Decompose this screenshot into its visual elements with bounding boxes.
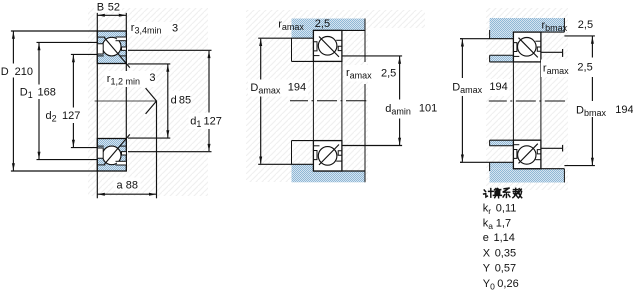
right face line <box>125 13 127 171</box>
svg-text:194: 194 <box>489 81 507 93</box>
inner ring shoulder line <box>98 55 104 57</box>
ball top <box>102 37 121 56</box>
label ramax right mid <box>344 65 398 82</box>
housing shoulder face bottom <box>258 163 313 165</box>
svg-text:52: 52 <box>108 2 120 14</box>
label d 85 <box>170 91 191 106</box>
housing band bottom right <box>490 169 565 183</box>
svg-text:B: B <box>97 2 104 14</box>
label Dbmax 194 right <box>573 102 633 118</box>
dimension Damax mid <box>259 39 262 164</box>
label ramax 2,5 right <box>541 60 594 78</box>
ball right top <box>518 38 537 57</box>
svg-text:85: 85 <box>179 95 191 107</box>
svg-text:2,5: 2,5 <box>315 18 330 30</box>
bearing box bottom right <box>513 140 541 169</box>
svg-text:D: D <box>1 66 9 78</box>
ramax leader bottom right <box>541 145 563 152</box>
bearing box top right <box>513 32 541 62</box>
contact line apex segment bottom <box>146 101 157 114</box>
dimension B <box>97 14 126 17</box>
svg-text:2,5: 2,5 <box>577 61 592 73</box>
label r34min 3 <box>129 22 180 36</box>
housing bore line bottom right <box>513 168 564 170</box>
housing outer edge bottom <box>364 171 366 182</box>
svg-text:101: 101 <box>419 103 437 115</box>
svg-text:194: 194 <box>615 104 633 116</box>
shaft line bottom right <box>490 139 541 141</box>
bearing face lines mid <box>312 61 314 140</box>
dimension damin <box>342 56 402 146</box>
outer ring shoulder line bottom <box>98 164 106 166</box>
dimension d <box>128 64 170 138</box>
label d1 127 <box>189 113 223 129</box>
svg-text:0,26: 0,26 <box>497 278 518 290</box>
svg-text:3: 3 <box>172 23 178 35</box>
housing step top right <box>490 32 514 39</box>
svg-text:d: d <box>171 95 177 107</box>
svg-text:168: 168 <box>38 87 56 99</box>
left edges bottom right <box>489 162 491 171</box>
dimension Damax right <box>460 39 464 163</box>
contact line apex segment top <box>146 88 157 101</box>
housing shoulder face top <box>258 37 313 39</box>
svg-text:2,5: 2,5 <box>381 68 396 80</box>
centerline mid <box>290 100 366 102</box>
svg-text:a: a <box>117 180 124 192</box>
svg-text:e: e <box>483 232 489 244</box>
housing shoulder face top right <box>460 38 513 40</box>
right middle notch bottom <box>122 152 126 155</box>
label B 52 <box>94 0 122 12</box>
centerline axis <box>95 100 157 102</box>
label Damax 194 <box>248 80 308 97</box>
dimension D <box>11 31 97 171</box>
ring marks right bottom <box>513 150 517 159</box>
bearing box top <box>313 30 342 61</box>
svg-text:1,7: 1,7 <box>496 218 511 230</box>
table heading 计算系数 (drawn glyphs) <box>484 188 522 198</box>
housing bore line top <box>313 29 365 31</box>
dimension Dbmax right <box>564 36 595 166</box>
outer ring gap notch bottom-right <box>117 162 126 165</box>
svg-text:88: 88 <box>126 180 138 192</box>
ring marks mid bottom <box>313 151 317 160</box>
svg-text:127: 127 <box>204 116 222 128</box>
housing band right edges <box>563 18 565 32</box>
shaft line top right <box>490 61 541 63</box>
contact angle line bottom <box>104 134 130 164</box>
shaft spacer top right <box>490 55 514 62</box>
label Damax 194 right <box>450 79 510 96</box>
housing pocket edge bottom <box>291 141 293 165</box>
left ring notch <box>98 44 103 54</box>
left edges top right <box>489 30 491 39</box>
housing band bottom <box>292 171 366 182</box>
contact line right bottom <box>519 144 538 164</box>
ball mid bottom <box>318 147 337 166</box>
svg-text:Y: Y <box>483 262 491 274</box>
centerline right <box>489 100 565 102</box>
svg-text:1,14: 1,14 <box>494 232 515 244</box>
contact line mid bottom <box>319 145 339 165</box>
svg-text:3: 3 <box>149 72 155 84</box>
inner ring shoulder line bottom <box>98 145 104 147</box>
spacer bottom line right <box>490 145 514 147</box>
housing band top <box>292 19 366 31</box>
right middle notch <box>122 47 126 50</box>
svg-text:0,57: 0,57 <box>495 262 516 274</box>
dimension a <box>97 101 156 198</box>
inner ring face line bottom <box>292 140 342 142</box>
housing outer edge top <box>364 19 366 63</box>
dimension d2 <box>71 54 97 147</box>
ball bottom <box>102 146 121 165</box>
bearing box bottom <box>313 141 342 171</box>
left ring notch bottom <box>98 148 103 158</box>
label a 88 <box>114 178 141 191</box>
housing shoulder face bottom right <box>460 161 513 163</box>
housing step top-left <box>292 30 314 38</box>
ramax leader top right <box>541 49 563 57</box>
housing outer edge middle <box>364 84 366 171</box>
svg-text:0,11: 0,11 <box>496 203 517 215</box>
watermark hatch right <box>486 8 568 190</box>
outer ring shoulder line <box>98 36 106 38</box>
dimension d1 <box>128 50 212 151</box>
outer ring gap notch top-right <box>117 37 126 40</box>
label damin 101 <box>383 100 439 119</box>
housing band top right <box>490 18 565 32</box>
ring marks right top <box>513 43 517 52</box>
housing step bottom right <box>490 162 514 168</box>
svg-text:0,35: 0,35 <box>495 247 516 259</box>
watermark hatch left <box>88 8 208 196</box>
ball right bottom <box>518 146 536 164</box>
housing pocket edge top <box>291 38 293 61</box>
svg-text:210: 210 <box>15 66 33 78</box>
inner ring face line top <box>292 60 342 62</box>
bearing face lines right <box>512 62 514 140</box>
svg-text:2,5: 2,5 <box>578 19 593 31</box>
contact angle line top <box>104 38 130 68</box>
housing bore line top right <box>513 31 564 33</box>
ball mid top <box>318 37 337 56</box>
label r12min 3 <box>105 71 157 87</box>
housing bore line bottom <box>313 170 365 172</box>
svg-text:194: 194 <box>288 82 306 94</box>
bottom bearing section body <box>97 134 130 171</box>
dimension D1 <box>37 42 98 159</box>
svg-text:127: 127 <box>62 110 80 122</box>
watermark hatch middle <box>246 10 368 182</box>
contact line mid top <box>319 37 339 57</box>
contact line right top <box>519 38 538 58</box>
watermark hatch middle top sliver <box>368 10 425 28</box>
svg-text:X: X <box>483 247 491 259</box>
top bearing section body <box>97 31 130 68</box>
housing step bottom-left <box>292 164 314 171</box>
shaft spacer bottom right <box>490 140 514 146</box>
spacer top line right <box>490 54 514 56</box>
ring marks mid top <box>313 42 317 51</box>
left face line <box>96 13 98 198</box>
